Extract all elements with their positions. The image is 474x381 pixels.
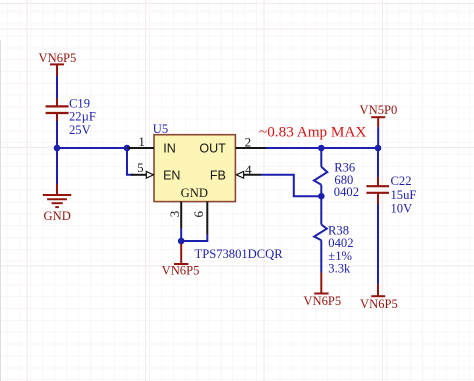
wire node A down to ground bbox=[56, 148, 58, 184]
capacitor C22 bbox=[366, 177, 389, 204]
svg-text:VN6P5: VN6P5 bbox=[162, 263, 200, 277]
pin 2 OUT bbox=[236, 134, 268, 149]
sheet edge line bbox=[0, 40, 2, 381]
wire feedback node to R38 bbox=[320, 196, 322, 224]
pin 3 GND bbox=[167, 202, 182, 228]
svg-text:EN: EN bbox=[163, 169, 180, 183]
svg-text:GND: GND bbox=[181, 186, 208, 200]
svg-text:3: 3 bbox=[167, 211, 182, 218]
svg-text:1: 1 bbox=[138, 134, 145, 149]
op-amp U5 regulator body TPS73801DCQR bbox=[153, 122, 236, 202]
junction feedback node bbox=[318, 193, 325, 200]
pin 1 IN bbox=[127, 134, 154, 149]
wire node B down to pin 5 bbox=[127, 148, 133, 175]
wire pin 2 output net bbox=[266, 147, 378, 149]
node VN6P5 power symbol bottom right bbox=[360, 284, 398, 311]
junction output net at R36 bbox=[318, 145, 325, 152]
svg-text:VN6P5: VN6P5 bbox=[303, 294, 341, 308]
wire C19 bottom to node A bbox=[56, 121, 58, 148]
wire VN6P5 to C19 top bbox=[56, 76, 58, 98]
resistor R38 bbox=[314, 225, 327, 273]
svg-text:TPS73801DCQR: TPS73801DCQR bbox=[195, 247, 284, 261]
svg-text:U5: U5 bbox=[153, 122, 168, 136]
svg-text:OUT: OUT bbox=[199, 142, 226, 156]
junction node B bbox=[124, 145, 131, 152]
svg-text:4: 4 bbox=[245, 162, 252, 177]
node VN5P0 power symbol top right bbox=[360, 103, 398, 127]
pin 4 FB bbox=[236, 162, 261, 178]
value label C22 15uF 10V bbox=[391, 174, 417, 216]
svg-text:VN6P5: VN6P5 bbox=[360, 297, 398, 311]
svg-text:15uF: 15uF bbox=[391, 188, 417, 202]
value label R38 0402 1% 3.3k bbox=[328, 223, 353, 275]
node VN6P5 power symbol under R38 bbox=[303, 273, 341, 309]
wire node A to node B bbox=[57, 147, 127, 149]
junction under U5 bbox=[178, 238, 185, 245]
wire output net down to C22 bbox=[377, 148, 379, 177]
wire pin 3 to junction bbox=[180, 228, 182, 241]
junction node A bbox=[54, 145, 61, 152]
wire pin 6 to junction bbox=[181, 234, 207, 241]
value label C19 22uF 25V bbox=[69, 96, 96, 137]
node VN6P5 top-left power symbol bbox=[39, 51, 77, 76]
svg-text:25V: 25V bbox=[69, 123, 91, 137]
wire C22 to VN6P5 bbox=[377, 204, 379, 284]
ground GND symbol bbox=[43, 184, 72, 223]
svg-text:6: 6 bbox=[191, 211, 206, 218]
svg-text:5: 5 bbox=[137, 160, 144, 175]
svg-text:2: 2 bbox=[245, 134, 252, 149]
pin 6 GND pad bbox=[191, 202, 207, 234]
svg-text:FB: FB bbox=[210, 168, 226, 182]
wire pin 4 to feedback divider bbox=[261, 175, 321, 196]
wire VN5P0 to output net bbox=[377, 127, 379, 148]
svg-text:VN6P5: VN6P5 bbox=[39, 51, 77, 65]
value label R36 680 0402 bbox=[334, 161, 359, 200]
junction output net at C22 bbox=[375, 145, 382, 152]
capacitor C19 bbox=[46, 98, 69, 121]
svg-text:0402: 0402 bbox=[334, 185, 359, 199]
svg-text:VN5P0: VN5P0 bbox=[360, 103, 398, 117]
node VN6P5 power symbol under U5 bbox=[162, 244, 200, 278]
svg-text:IN: IN bbox=[163, 142, 176, 156]
svg-text:C19: C19 bbox=[69, 96, 90, 110]
svg-text:C22: C22 bbox=[391, 174, 412, 188]
svg-text:10V: 10V bbox=[391, 201, 413, 215]
svg-text:GND: GND bbox=[44, 209, 71, 223]
pin 5 EN bbox=[131, 160, 154, 178]
svg-text:3.3k: 3.3k bbox=[328, 262, 351, 276]
svg-text:0402: 0402 bbox=[328, 236, 353, 250]
resistor R36 bbox=[314, 148, 327, 196]
svg-text:22µF: 22µF bbox=[69, 109, 96, 123]
svg-text:~0.83 Amp MAX: ~0.83 Amp MAX bbox=[259, 123, 366, 140]
